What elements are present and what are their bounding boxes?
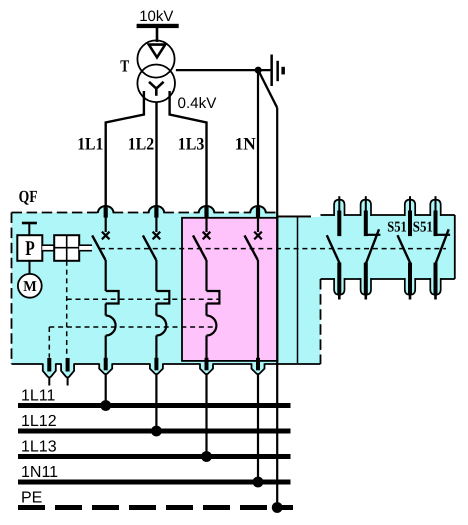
svg-text:1L13: 1L13 <box>21 439 57 456</box>
svg-text:10kV: 10kV <box>139 8 173 25</box>
svg-text:PE: PE <box>21 490 42 507</box>
svg-text:QF: QF <box>19 187 38 206</box>
svg-text:P: P <box>25 236 35 260</box>
svg-text:1L3: 1L3 <box>178 133 205 153</box>
svg-text:1N: 1N <box>235 133 257 153</box>
svg-text:1L2: 1L2 <box>128 133 155 153</box>
svg-text:S51: S51 <box>387 219 407 235</box>
svg-text:S51: S51 <box>413 219 433 235</box>
svg-text:M: M <box>23 279 37 295</box>
svg-text:1L1: 1L1 <box>77 133 103 153</box>
svg-text:1N11: 1N11 <box>21 464 58 481</box>
svg-text:1L12: 1L12 <box>21 413 57 430</box>
svg-text:0.4kV: 0.4kV <box>178 95 218 112</box>
svg-text:T: T <box>120 57 130 76</box>
svg-text:1L11: 1L11 <box>21 388 56 405</box>
